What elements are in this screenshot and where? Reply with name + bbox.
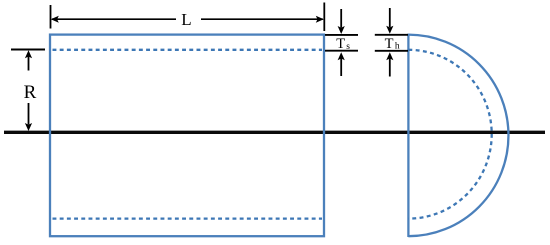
dimension L line left segment bbox=[52, 18, 176, 20]
svg-text:s: s bbox=[346, 42, 350, 52]
dimension R tick bbox=[11, 48, 45, 50]
dimension Th top tick bbox=[375, 34, 408, 36]
dimension L extension line right bbox=[323, 3, 325, 32]
dimension Ts top tick bbox=[325, 34, 358, 36]
dimension Th bottom tick bbox=[375, 50, 408, 52]
centerline bbox=[4, 131, 545, 134]
shell inner wall top (dashed) bbox=[53, 49, 323, 51]
shell outer rectangle bbox=[50, 35, 324, 237]
dimension Ts upper arrow (down) bbox=[340, 9, 342, 28]
svg-text:T: T bbox=[385, 36, 394, 52]
head flat edge bbox=[407, 34, 409, 237]
dimension Ts lower arrow (up) bbox=[340, 59, 342, 77]
dimension L right arrowhead bbox=[316, 16, 324, 23]
dimension Th lower arrow (up) bbox=[389, 59, 391, 77]
dimension L left arrowhead bbox=[51, 16, 59, 23]
dimension L line right segment bbox=[201, 18, 323, 20]
dimension Th upper arrow (down) bbox=[389, 8, 391, 27]
shell inner wall bottom (dashed) bbox=[53, 217, 323, 219]
svg-text:R: R bbox=[24, 82, 37, 103]
head inner arc (dashed) bbox=[408, 50, 491, 219]
dimension L extension line left bbox=[50, 5, 52, 29]
svg-text:L: L bbox=[181, 10, 191, 29]
head outer arc bbox=[408, 35, 508, 237]
dimension R lower arrow (down) bbox=[28, 103, 30, 125]
svg-text:h: h bbox=[395, 41, 400, 51]
svg-text:T: T bbox=[336, 36, 345, 52]
dimension Ts bottom tick bbox=[325, 50, 358, 52]
dimension R upper arrow (up) bbox=[28, 57, 30, 71]
